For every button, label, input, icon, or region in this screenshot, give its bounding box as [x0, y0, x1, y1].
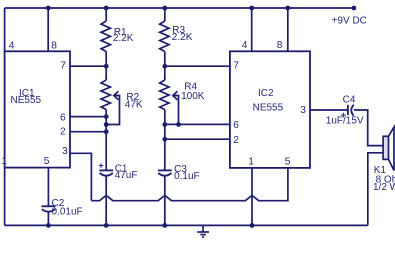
svg-text:4: 4: [9, 40, 15, 51]
pot R2 wiper arm: [106, 96, 119, 125]
svg-text:2: 2: [233, 135, 239, 146]
node: R2/pin2 junction: [104, 129, 109, 134]
node: R2 wiper junction: [104, 122, 109, 127]
node: R4/pin6 junction: [162, 122, 167, 127]
svg-text:2: 2: [60, 127, 66, 138]
wire C4 to speaker top terminal: [354, 110, 383, 146]
node: R4 wiper junction: [176, 122, 181, 127]
svg-text:1: 1: [1, 156, 7, 167]
wire top rail +9V: [5, 7, 354, 9]
svg-text:3: 3: [300, 105, 306, 116]
op-amp U1: IC1 NE555 box: [5, 51, 70, 167]
svg-text:1/2 Watt: 1/2 Watt: [373, 182, 395, 193]
wire R3 bottom lead to pin7 node: [164, 52, 166, 81]
capacitor C4 curved plate: [351, 105, 353, 116]
wire R1 top lead from rail: [105, 8, 107, 21]
svg-text:7: 7: [60, 60, 66, 71]
capacitor C1 top plate: [99, 169, 113, 171]
op-amp U2: IC2 NE555 box: [230, 51, 310, 168]
speaker K1 body: [383, 136, 388, 159]
svg-text:C4: C4: [343, 95, 356, 106]
svg-text:+9V DC: +9V DC: [332, 16, 367, 27]
capacitor C3 curved plate: [158, 173, 171, 176]
wire IC1 pin3 to IC2 pin5 with hops: [91, 168, 288, 201]
node: R3/R4/pin7 junction: [162, 64, 167, 69]
pot R2 wiper arrowhead: [114, 91, 119, 100]
node: ground rail C1: [104, 223, 109, 228]
wire bottom ground rail: [5, 224, 368, 226]
wire IC2 pin3 to C4: [310, 109, 348, 111]
svg-text:2.2K: 2.2K: [172, 32, 193, 43]
svg-text:5: 5: [44, 156, 50, 167]
node: ground rail C2: [46, 223, 51, 228]
wire IC1 pin7 to R1/R2 junction: [70, 65, 106, 67]
wire R4 bottom lead: [164, 110, 166, 170]
svg-text:47uF: 47uF: [115, 170, 138, 181]
node: R1/R2/pin7 junction: [104, 64, 109, 69]
svg-text:0.1uF: 0.1uF: [174, 171, 200, 182]
wire R3 top lead from rail: [164, 8, 166, 21]
svg-text:IC2: IC2: [258, 88, 274, 99]
svg-text:+: +: [98, 161, 104, 172]
wire IC1 pin4 to rail: [4, 8, 6, 51]
svg-text:8: 8: [277, 40, 283, 51]
svg-text:7: 7: [233, 61, 239, 72]
ground symbol: [202, 225, 204, 232]
wire IC2 pin1 to ground rail: [251, 168, 253, 226]
capacitor C2 curved plate: [42, 209, 56, 212]
resistor R4 100K zigzag (pot): [160, 80, 169, 110]
wire IC1 pin3 output: [70, 153, 91, 200]
svg-text:3: 3: [62, 146, 68, 157]
svg-text:1: 1: [248, 157, 254, 168]
svg-text:5: 5: [285, 157, 291, 168]
node: +9V DC terminal: [352, 6, 357, 11]
wire IC1 pin5 to C2: [47, 168, 49, 207]
pot R4 wiper arm: [173, 96, 179, 125]
node: rail junction R3: [162, 6, 167, 11]
svg-text:100K: 100K: [181, 91, 205, 102]
wire IC1 pin2 to R2 node: [70, 131, 106, 133]
resistor R2 47K zigzag (pot): [101, 80, 110, 110]
wire IC1 pin8 to rail: [47, 8, 49, 51]
capacitor C3 top plate: [158, 169, 172, 171]
node: R4/pin2 junction: [162, 137, 167, 142]
speaker K1 horn: [389, 127, 395, 171]
svg-text:8: 8: [51, 40, 57, 51]
wire IC2 pin6 to R4 node: [165, 123, 230, 125]
wire speaker bottom terminal to ground rail: [368, 153, 383, 226]
capacitor C2 top plate: [42, 205, 56, 207]
svg-text:1uF/15V: 1uF/15V: [326, 116, 364, 127]
svg-text:NE555: NE555: [11, 95, 42, 106]
wire IC2 pin2 to R4 node: [165, 138, 230, 140]
svg-text:6: 6: [60, 112, 66, 123]
node: rail junction IC2 pin8: [285, 6, 290, 11]
resistor R3 2.2K zigzag: [160, 21, 169, 52]
capacitor C4 left plate: [347, 105, 349, 115]
svg-text:4: 4: [242, 40, 248, 51]
svg-text:2.2K: 2.2K: [113, 33, 134, 44]
svg-text:6: 6: [233, 120, 239, 131]
wire R2 bottom lead: [105, 110, 107, 170]
node: R2/pin6 junction: [104, 114, 109, 119]
resistor R1 2.2K zigzag: [101, 21, 110, 52]
wire C3 bottom to ground rail: [164, 176, 166, 225]
wire IC2 pin7 to R3/R4 junction: [165, 65, 230, 67]
wire IC2 pin8 to rail: [287, 8, 289, 51]
wire R1 bottom lead to pin7 node: [105, 52, 107, 81]
node: rail junction IC2 pin4: [249, 6, 254, 11]
pot R4 wiper arrowhead: [173, 91, 178, 100]
wire IC2 pin4 to rail: [251, 8, 253, 51]
wire IC1 pin1 to ground rail: [4, 168, 6, 226]
capacitor C1 curved plate: [100, 173, 113, 176]
node: rail junction R1: [104, 6, 109, 11]
svg-text:NE555: NE555: [253, 103, 284, 114]
wire C2 bottom to ground rail: [47, 212, 49, 225]
wire C1 bottom to ground rail: [105, 176, 107, 225]
node: rail junction IC1 pin8: [46, 6, 51, 11]
svg-text:0.01uF: 0.01uF: [52, 206, 83, 217]
wire IC1 pin6 to R2 node: [70, 116, 106, 118]
node: ground rail C3: [162, 223, 167, 228]
node: ground rail IC2 pin1: [250, 223, 255, 228]
svg-text:47K: 47K: [125, 100, 143, 111]
